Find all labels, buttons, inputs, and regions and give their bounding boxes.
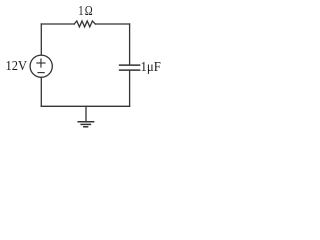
label 1μF (capacitor value) xyxy=(141,59,161,75)
capacitor C1 top plate xyxy=(120,64,140,66)
wire right lower (capacitor to bottom node) xyxy=(129,70,131,106)
svg-text:1μF: 1μF xyxy=(141,59,161,75)
svg-text:12V: 12V xyxy=(6,58,28,74)
wire top-left (source to resistor) xyxy=(41,23,74,25)
label 1Ω (resistor value) xyxy=(78,3,94,19)
ground xyxy=(78,122,93,127)
wire left upper (top node to source +) xyxy=(40,24,42,55)
voltage source V1 circle xyxy=(30,55,52,77)
wire top-right (resistor to capacitor) xyxy=(95,23,129,25)
resistor xyxy=(74,21,95,27)
svg-text:1Ω: 1Ω xyxy=(78,3,94,19)
voltage source minus terminal xyxy=(38,72,44,74)
capacitor C1 bottom plate xyxy=(120,69,140,71)
wire bottom (source to capacitor) xyxy=(41,105,129,107)
voltage source plus terminal xyxy=(37,59,45,67)
label 12V (source value) xyxy=(6,58,28,74)
wire ground stub xyxy=(85,106,87,121)
wire right upper (top node to capacitor) xyxy=(129,24,131,65)
wire left lower (source - to bottom node) xyxy=(40,77,42,106)
